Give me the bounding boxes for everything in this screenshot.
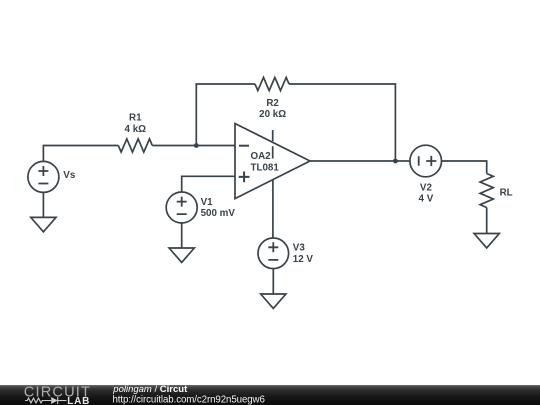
svg-text:V3: V3 [293, 242, 306, 253]
svg-text:20 kΩ: 20 kΩ [259, 109, 286, 120]
CircuitLab logo resistor-diode glyph [25, 397, 67, 404]
wire op-amp output to V2 [310, 160, 410, 162]
voltage source V2 [410, 145, 442, 177]
resistor R2 [255, 77, 289, 90]
ground below V1 [169, 248, 194, 262]
op-amp V+ power pin [272, 130, 274, 159]
svg-text:V2: V2 [420, 183, 433, 194]
svg-text:R2: R2 [266, 98, 279, 109]
op-amp V- power pin [272, 180, 274, 238]
resistor R1 [118, 139, 152, 152]
svg-text:Vs: Vs [63, 170, 76, 181]
svg-text:LAB: LAB [67, 396, 90, 405]
wire Vs to ground [42, 192, 44, 217]
svg-text:4 kΩ: 4 kΩ [125, 124, 147, 135]
svg-text:RL: RL [500, 188, 513, 199]
op-amp OA2 [235, 124, 310, 239]
wire V1 to op-amp non-inverting input [182, 176, 235, 192]
wire V1 to ground [181, 223, 183, 248]
wire V3 to ground [272, 269, 274, 294]
wire RL to ground [486, 208, 488, 234]
wire R2 to output node [289, 84, 395, 161]
ground below RL [474, 234, 499, 248]
voltage source V1 [166, 192, 197, 223]
junction node at output [393, 159, 398, 164]
ground below Vs [31, 217, 56, 231]
svg-text:OA2: OA2 [251, 151, 272, 162]
wire R1 to op-amp inverting input [152, 145, 235, 147]
footer bar [0, 385, 540, 405]
resistor RL [480, 174, 493, 208]
svg-text:12 V: 12 V [293, 254, 314, 265]
svg-text:V1: V1 [201, 197, 214, 208]
svg-text:500 mV: 500 mV [201, 208, 236, 219]
svg-text:4 V: 4 V [419, 194, 434, 205]
svg-text:TL081: TL081 [251, 162, 280, 173]
voltage source V3 [258, 238, 289, 269]
svg-text:http://circuitlab.com/c2rn92n5: http://circuitlab.com/c2rn92n5uegw6 [113, 394, 265, 405]
svg-text:polingam / Circut: polingam / Circut [112, 384, 188, 395]
wire Vs top to R1 [43, 146, 118, 162]
voltage source Vs [28, 161, 59, 192]
ground below V3 [261, 294, 286, 308]
junction node at R1 / feedback [194, 143, 199, 148]
wire V2 to RL [442, 161, 487, 174]
wire feedback up and to R2 [196, 84, 255, 146]
svg-text:R1: R1 [129, 113, 142, 124]
